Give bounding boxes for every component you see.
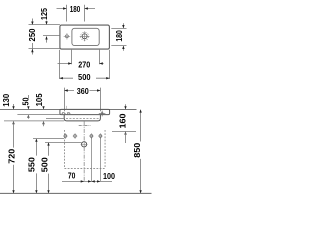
svg-text:550: 550: [27, 157, 37, 172]
svg-text:105: 105: [34, 93, 44, 106]
svg-text:500: 500: [78, 72, 91, 82]
svg-text:360: 360: [77, 86, 89, 96]
svg-text:160: 160: [118, 113, 128, 128]
svg-text:50: 50: [21, 97, 31, 105]
svg-text:250: 250: [27, 28, 37, 41]
svg-text:850: 850: [132, 142, 142, 157]
svg-text:180: 180: [114, 30, 124, 42]
svg-text:130: 130: [1, 94, 11, 107]
svg-text:100: 100: [103, 171, 115, 181]
svg-text:720: 720: [6, 149, 16, 164]
svg-text:500: 500: [40, 157, 50, 172]
svg-text:125: 125: [39, 8, 49, 20]
svg-text:70: 70: [68, 171, 76, 181]
svg-text:180: 180: [70, 4, 81, 14]
svg-text:270: 270: [78, 59, 90, 69]
